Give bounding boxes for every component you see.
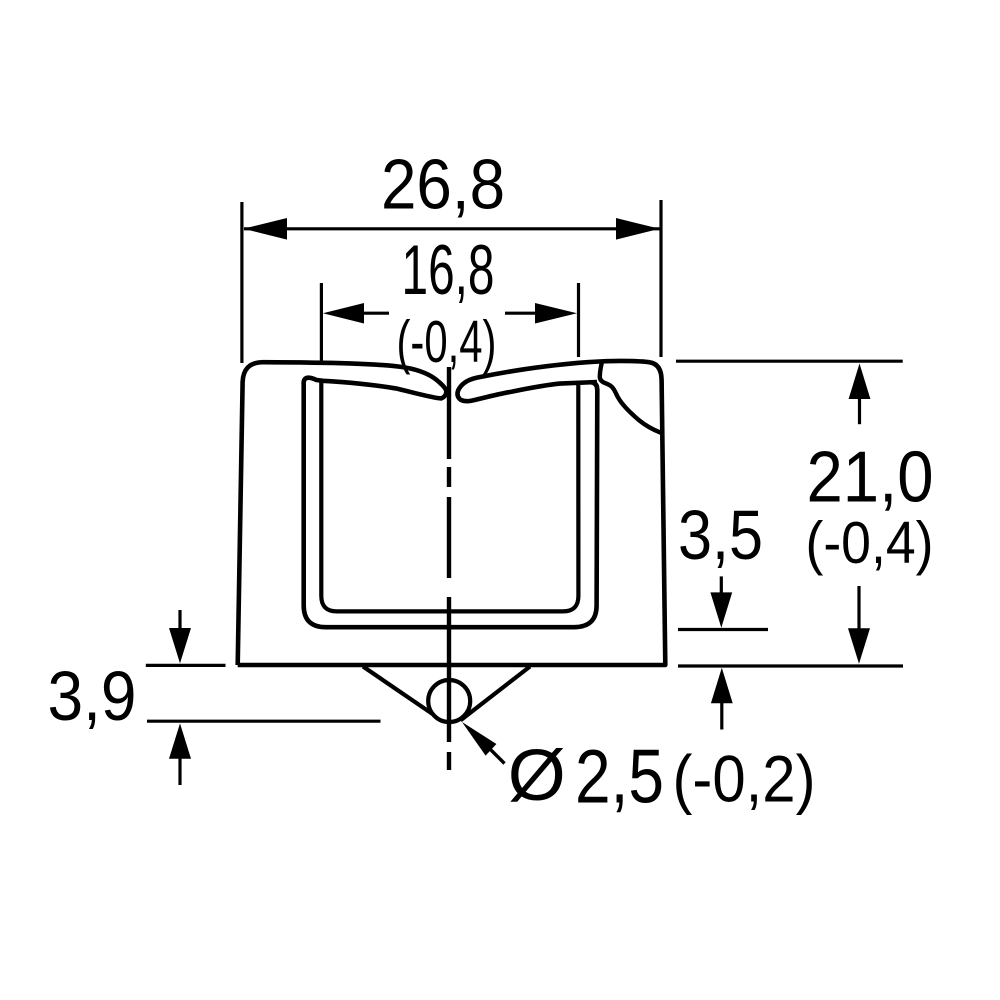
svg-text:2,5: 2,5 [575, 734, 664, 819]
svg-text:(-0,4): (-0,4) [397, 309, 497, 375]
svg-text:16,8: 16,8 [402, 230, 495, 309]
dim 3,5 reference line [678, 628, 768, 631]
dim 16,8 left stem [363, 312, 389, 315]
hole leader stem [489, 748, 505, 764]
svg-text:Ø: Ø [508, 736, 566, 816]
funnel right slope [461, 667, 531, 721]
svg-text:21,0: 21,0 [807, 437, 934, 517]
dim 16,8 left extension line [320, 283, 323, 364]
dim 21,0 top extension line [676, 360, 903, 363]
dim 16,8 right extension line [577, 283, 580, 357]
hole circle [428, 680, 470, 722]
dim 16,8 right stem [505, 312, 536, 315]
dim 3,9 upper reference line [146, 664, 226, 667]
dim 3,9 down stem [178, 610, 181, 629]
outer shell + left lip + cap + U outer wall [238, 362, 598, 665]
dim 26,8 left arrowhead [243, 218, 287, 240]
svg-text:3,9: 3,9 [48, 657, 137, 735]
svg-text:(-0,4): (-0,4) [806, 510, 934, 576]
dim 21,0 bottom extension line [678, 664, 903, 667]
dim 3,9 down arrowhead [169, 628, 191, 663]
funnel left slope [363, 667, 435, 716]
dim 16,8 right arrowhead [535, 303, 577, 324]
bottom edge + right edge + top-right corner + right lip + tip hook + underside [238, 361, 666, 665]
dim 3,5 down stem [720, 576, 723, 593]
top-right notch slit + concave arc [600, 363, 661, 433]
svg-text:26,8: 26,8 [381, 145, 505, 224]
dim 3,9 up arrowhead [169, 723, 191, 758]
dim 21,0 up stem [858, 398, 861, 424]
centerline (dash-dot axis) [447, 367, 451, 770]
slot inner (U channel inner surface) [321, 381, 578, 612]
dim 21,0 up arrowhead [849, 364, 871, 400]
dim 3,5 down arrowhead [710, 592, 732, 627]
dim 3,5 up arrowhead [711, 668, 733, 703]
svg-text:(-0,2): (-0,2) [673, 742, 816, 816]
hole leader arrowhead [462, 722, 496, 756]
dim 3,9 up stem [178, 758, 181, 785]
dim 26,8 right arrowhead [616, 218, 660, 240]
dim 26,8 left extension line [240, 202, 243, 363]
dim 3,5 up stem [720, 702, 723, 729]
dim 3,9 lower reference line [147, 720, 381, 723]
dim 16,8 left arrowhead [323, 303, 364, 324]
dim 26,8 dimension line [244, 227, 660, 230]
dim 21,0 down stem [857, 586, 860, 629]
svg-text:3,5: 3,5 [678, 496, 763, 574]
dim 21,0 down arrowhead [848, 628, 870, 664]
dim 26,8 right extension line [659, 200, 662, 357]
